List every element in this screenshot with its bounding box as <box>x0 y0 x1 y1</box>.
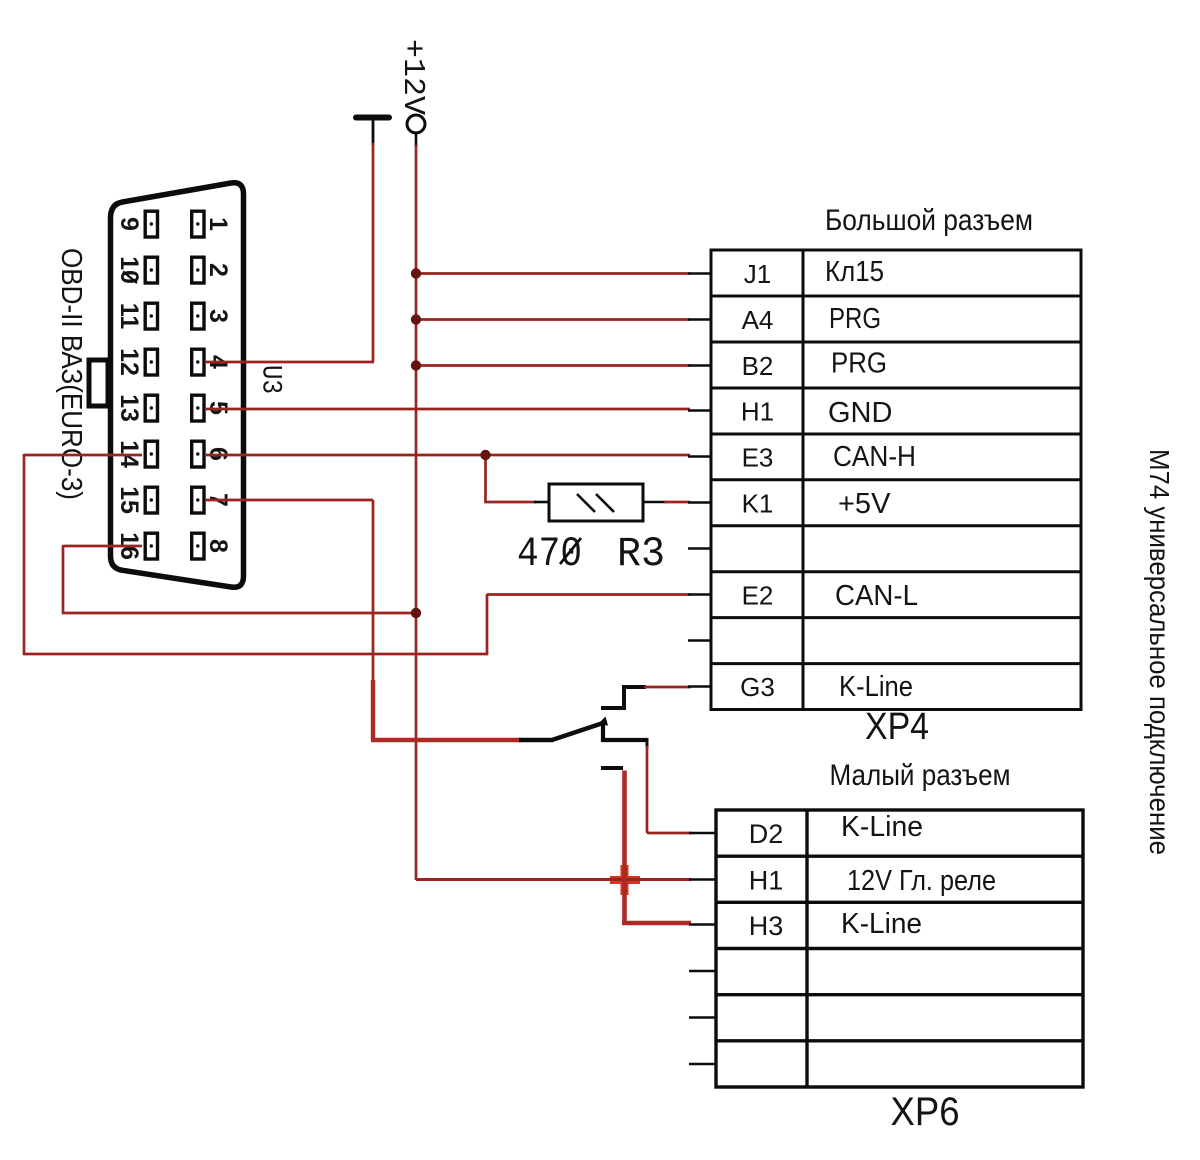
svg-text:PRG: PRG <box>831 348 887 380</box>
svg-text:K-Line: K-Line <box>841 908 922 940</box>
pin 9 <box>145 211 157 237</box>
pin 4 <box>192 349 204 375</box>
pin boxes right column (pins 1-8) <box>192 211 204 559</box>
svg-text:E2: E2 <box>742 581 774 611</box>
wire pin7 vertical thin <box>372 500 375 682</box>
svg-text:CAN-H: CAN-H <box>833 441 916 473</box>
svg-text:470: 470 <box>517 530 582 578</box>
pin 7 <box>192 487 204 513</box>
connector U3 body (OBD-II) <box>111 183 244 588</box>
pin numbers 9-16 <box>115 217 143 560</box>
svg-text:D2: D2 <box>749 819 784 849</box>
wire pin5 GND <box>206 408 690 411</box>
wire pin16 to 12V rail <box>62 612 416 615</box>
wire 12V to XP6 H1 <box>416 878 691 881</box>
svg-text:H1: H1 <box>749 866 784 896</box>
table XP4 (Большой разъем) <box>711 250 1081 710</box>
svg-text:K1: K1 <box>742 489 774 519</box>
svg-text:13: 13 <box>115 394 143 422</box>
XP4 cell texts <box>740 256 918 703</box>
+12V terminal stub <box>415 133 418 147</box>
pin 15 <box>145 487 157 513</box>
wire pin7 horizontal <box>206 499 373 502</box>
svg-text:9: 9 <box>115 217 143 231</box>
pin 13 <box>145 395 157 421</box>
svg-text:12: 12 <box>115 348 143 376</box>
wire B2 <box>416 364 690 367</box>
svg-text:OBD-II ВАЗ(EURO-3): OBD-II ВАЗ(EURO-3) <box>55 248 87 500</box>
wire switch common thick <box>371 738 521 742</box>
wire pin4 (horizontal) <box>206 361 374 364</box>
pin 2 <box>192 257 204 283</box>
pin center dots <box>150 222 200 547</box>
terminal bar stub <box>372 120 375 145</box>
XP6 cell texts <box>749 811 996 941</box>
pin 3 <box>192 303 204 329</box>
wire pin14 to CAN-L: left <box>24 454 142 457</box>
wire E2 <box>487 593 690 596</box>
svg-text:3: 3 <box>204 309 232 323</box>
resistor R3 slashes <box>577 494 595 512</box>
svg-text:R3: R3 <box>617 530 665 578</box>
switch SA1 upper contact to G3 <box>601 687 646 708</box>
wire CAN-L riser <box>486 594 489 655</box>
resistor R3 left lead <box>534 501 549 504</box>
wire E3 to resistor <box>486 455 537 502</box>
pin boxes left column (pins 9-16) <box>145 211 157 559</box>
connector U3 guide tab <box>89 360 108 406</box>
pin 1 <box>192 211 204 237</box>
svg-text:XP4: XP4 <box>865 706 929 748</box>
svg-text:11: 11 <box>115 303 143 330</box>
svg-text:Малый разъем: Малый разъем <box>830 759 1011 792</box>
wire to D2 vertical <box>646 746 649 833</box>
switch SA1 lower contact <box>601 766 623 770</box>
terminal bar (pin 4 power bar) <box>356 115 389 121</box>
table XP6 pin stubs <box>689 833 716 1064</box>
wire pin4 to bar (vertical) <box>372 143 375 362</box>
pin 11 <box>145 303 157 329</box>
svg-text:М74 универсальное подключение: М74 универсальное подключение <box>1144 449 1175 855</box>
wire +12V rail vertical <box>415 145 418 880</box>
svg-text:2: 2 <box>204 263 232 277</box>
junction dot A4 <box>411 314 421 324</box>
switch middle contact drop (black) <box>646 738 649 748</box>
junction dot B2 <box>411 360 421 370</box>
switch SA1 lever <box>552 723 603 740</box>
wire resistor to K1 <box>664 501 690 504</box>
svg-text:PRG: PRG <box>829 303 881 335</box>
svg-text:12V Гл. реле: 12V Гл. реле <box>847 865 996 897</box>
pin 8 <box>192 533 204 559</box>
table XP4 pin stubs <box>688 274 711 687</box>
switch SA1 middle contact <box>603 724 647 740</box>
svg-text:J1: J1 <box>744 259 771 289</box>
svg-text:E3: E3 <box>742 443 774 473</box>
svg-text:GND: GND <box>828 397 892 429</box>
svg-text:+12V: +12V <box>395 39 430 115</box>
svg-text:B2: B2 <box>742 351 774 381</box>
junction dot E3/R3 <box>480 450 490 460</box>
svg-text:Кл15: Кл15 <box>825 256 884 288</box>
svg-text:K-Line: K-Line <box>841 811 923 843</box>
wire pin7 vertical thick <box>371 680 375 740</box>
wire pin16 left <box>63 545 142 548</box>
wire pin6 CAN-H / E3 <box>206 454 690 457</box>
junction dot 12V rail / pin16 <box>411 608 421 618</box>
svg-text:A4: A4 <box>742 305 774 335</box>
bright cross at 12V/H3 crossing <box>610 876 640 884</box>
svg-text:+5V: +5V <box>838 488 891 520</box>
pin 5 <box>192 395 204 421</box>
pin 14 <box>145 441 157 467</box>
svg-text:XP6: XP6 <box>891 1090 960 1134</box>
pin 16 <box>145 533 157 559</box>
wire lower contact to H3 thick vertical <box>622 771 627 924</box>
svg-text:K-Line: K-Line <box>839 671 913 703</box>
switch SA1 common black segment <box>519 738 553 742</box>
svg-text:H1: H1 <box>741 397 774 427</box>
+12V terminal circle <box>407 115 425 133</box>
wire CAN-L bottom horizontal <box>23 653 488 656</box>
table XP6 (Малый разъем) <box>716 810 1083 1087</box>
svg-text:H3: H3 <box>749 911 784 941</box>
svg-text:G3: G3 <box>740 672 775 702</box>
wire A4 <box>416 318 690 321</box>
wire J1 <box>416 272 690 275</box>
svg-text:15: 15 <box>115 486 143 514</box>
svg-text:10: 10 <box>115 256 143 284</box>
junction dot J1 <box>411 268 421 278</box>
wire H3 thick horizontal <box>622 921 691 926</box>
svg-text:U3: U3 <box>255 365 286 394</box>
switch SA1 lever arrowhead <box>598 717 609 726</box>
pin 10 <box>145 257 157 283</box>
wire to D2 horizontal <box>647 832 692 835</box>
svg-text:CAN-L: CAN-L <box>835 580 918 612</box>
pin 12 <box>145 349 157 375</box>
svg-text:Большой разъем: Большой разъем <box>825 204 1033 237</box>
svg-text:1: 1 <box>204 217 232 231</box>
wire G3 red <box>644 686 691 689</box>
resistor R3 body <box>549 484 643 521</box>
resistor R3 right lead <box>643 501 666 504</box>
wire pin14 vertical <box>23 454 26 655</box>
pin numbers 1-8 <box>204 217 232 553</box>
pin 6 <box>192 441 204 467</box>
wire pin16 vertical <box>62 545 65 614</box>
slash of 0 in 470 <box>560 538 581 564</box>
svg-text:8: 8 <box>204 539 232 553</box>
